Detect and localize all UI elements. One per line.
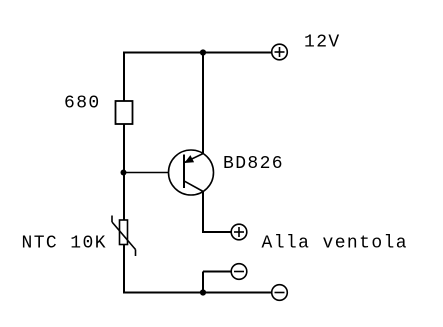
transistor emitter line (to top) bbox=[185, 154, 203, 163]
transistor collector line (to bottom) bbox=[185, 181, 204, 191]
node: junction of collector branch with top rail bbox=[200, 49, 206, 55]
resistor 680 (rectangle body) bbox=[116, 101, 133, 124]
wire: bottom rail bbox=[123, 292, 272, 294]
wire: left vertical from NTC bottom to bottom rail bbox=[123, 245, 125, 294]
svg-text:NTC 10K: NTC 10K bbox=[22, 234, 107, 254]
svg-text:12V: 12V bbox=[304, 33, 341, 53]
NTC 10K thermistor body rectangle bbox=[120, 220, 128, 245]
transistor Q1 BD826 (PNP) body circle bbox=[169, 150, 214, 195]
terminal fan -: circle with minus bbox=[231, 264, 247, 280]
wire: base wire from junction to transistor circle bbox=[124, 172, 169, 174]
wire: vertical from top rail junction down to transistor top (emitter lead) bbox=[202, 53, 204, 155]
wire: horizontal to fan + terminal bbox=[202, 231, 231, 233]
NTC slash: bottom hook bbox=[135, 250, 137, 257]
wire: collector vertical down from transistor bbox=[202, 191, 204, 233]
terminal +12V: circle with plus bbox=[272, 44, 288, 60]
wire: top rail from resistor branch to +12V terminal bbox=[123, 52, 272, 54]
wire: left vertical from top rail down to resistor R top bbox=[123, 52, 125, 102]
node: junction of base wire with left branch bbox=[121, 170, 127, 176]
svg-text:Alla ventola: Alla ventola bbox=[262, 234, 408, 254]
terminal fan +: circle with plus bbox=[231, 224, 247, 240]
svg-text:680: 680 bbox=[64, 94, 101, 114]
NTC slash: top hook bbox=[111, 216, 113, 223]
terminal supply -: circle with minus bbox=[272, 285, 288, 301]
wire: horizontal to fan - terminal bbox=[203, 271, 231, 273]
wire: left vertical from resistor bottom to NTC top bbox=[123, 124, 125, 220]
svg-text:BD826: BD826 bbox=[223, 154, 284, 174]
transistor base bar bbox=[183, 155, 185, 189]
node: junction of fan - branch with bottom rail bbox=[200, 289, 206, 295]
wire: vertical from fan - wire down to bottom rail bbox=[202, 272, 204, 293]
NTC slash: diagonal through body bbox=[112, 222, 136, 250]
transistor emitter arrow (PNP, points to base bar) bbox=[184, 155, 194, 163]
